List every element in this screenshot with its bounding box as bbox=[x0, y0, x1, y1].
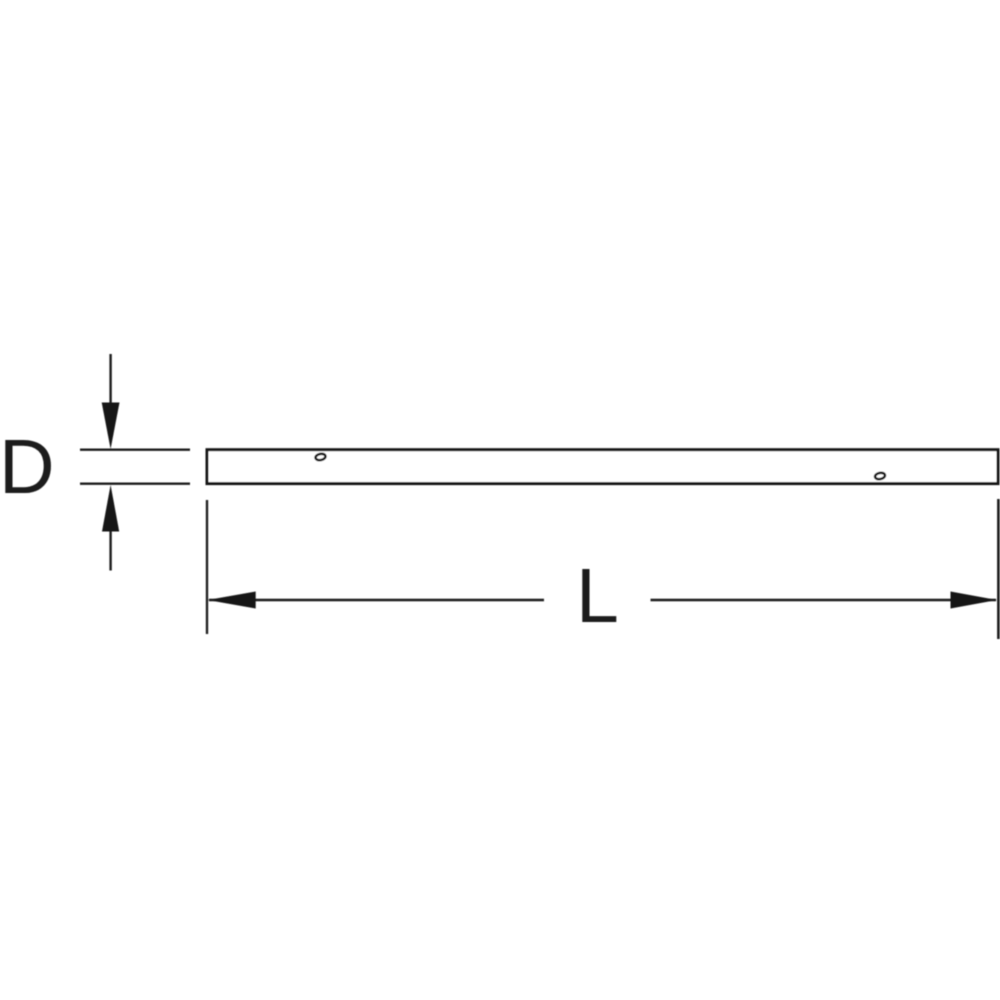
wire: L left extension line bbox=[206, 500, 208, 634]
arrow up (D dimension, below) bbox=[102, 485, 119, 571]
arrowhead right (L dimension) bbox=[951, 592, 998, 609]
svg-text:L: L bbox=[576, 553, 619, 639]
wire: D top extension line bbox=[80, 449, 190, 451]
wire: L dimension line right segment bbox=[651, 599, 997, 601]
wire: L right extension line bbox=[997, 499, 1000, 639]
rod body (tube) bbox=[207, 450, 998, 484]
hole 1 on rod bbox=[315, 453, 326, 461]
wire: L dimension line left segment bbox=[209, 599, 544, 601]
hole 2 on rod bbox=[874, 472, 885, 480]
wire: D bottom extension line bbox=[80, 483, 190, 485]
arrow down (D dimension, above) bbox=[102, 354, 120, 449]
arrowhead left (L dimension) bbox=[208, 592, 256, 609]
svg-text:D: D bbox=[0, 424, 55, 510]
